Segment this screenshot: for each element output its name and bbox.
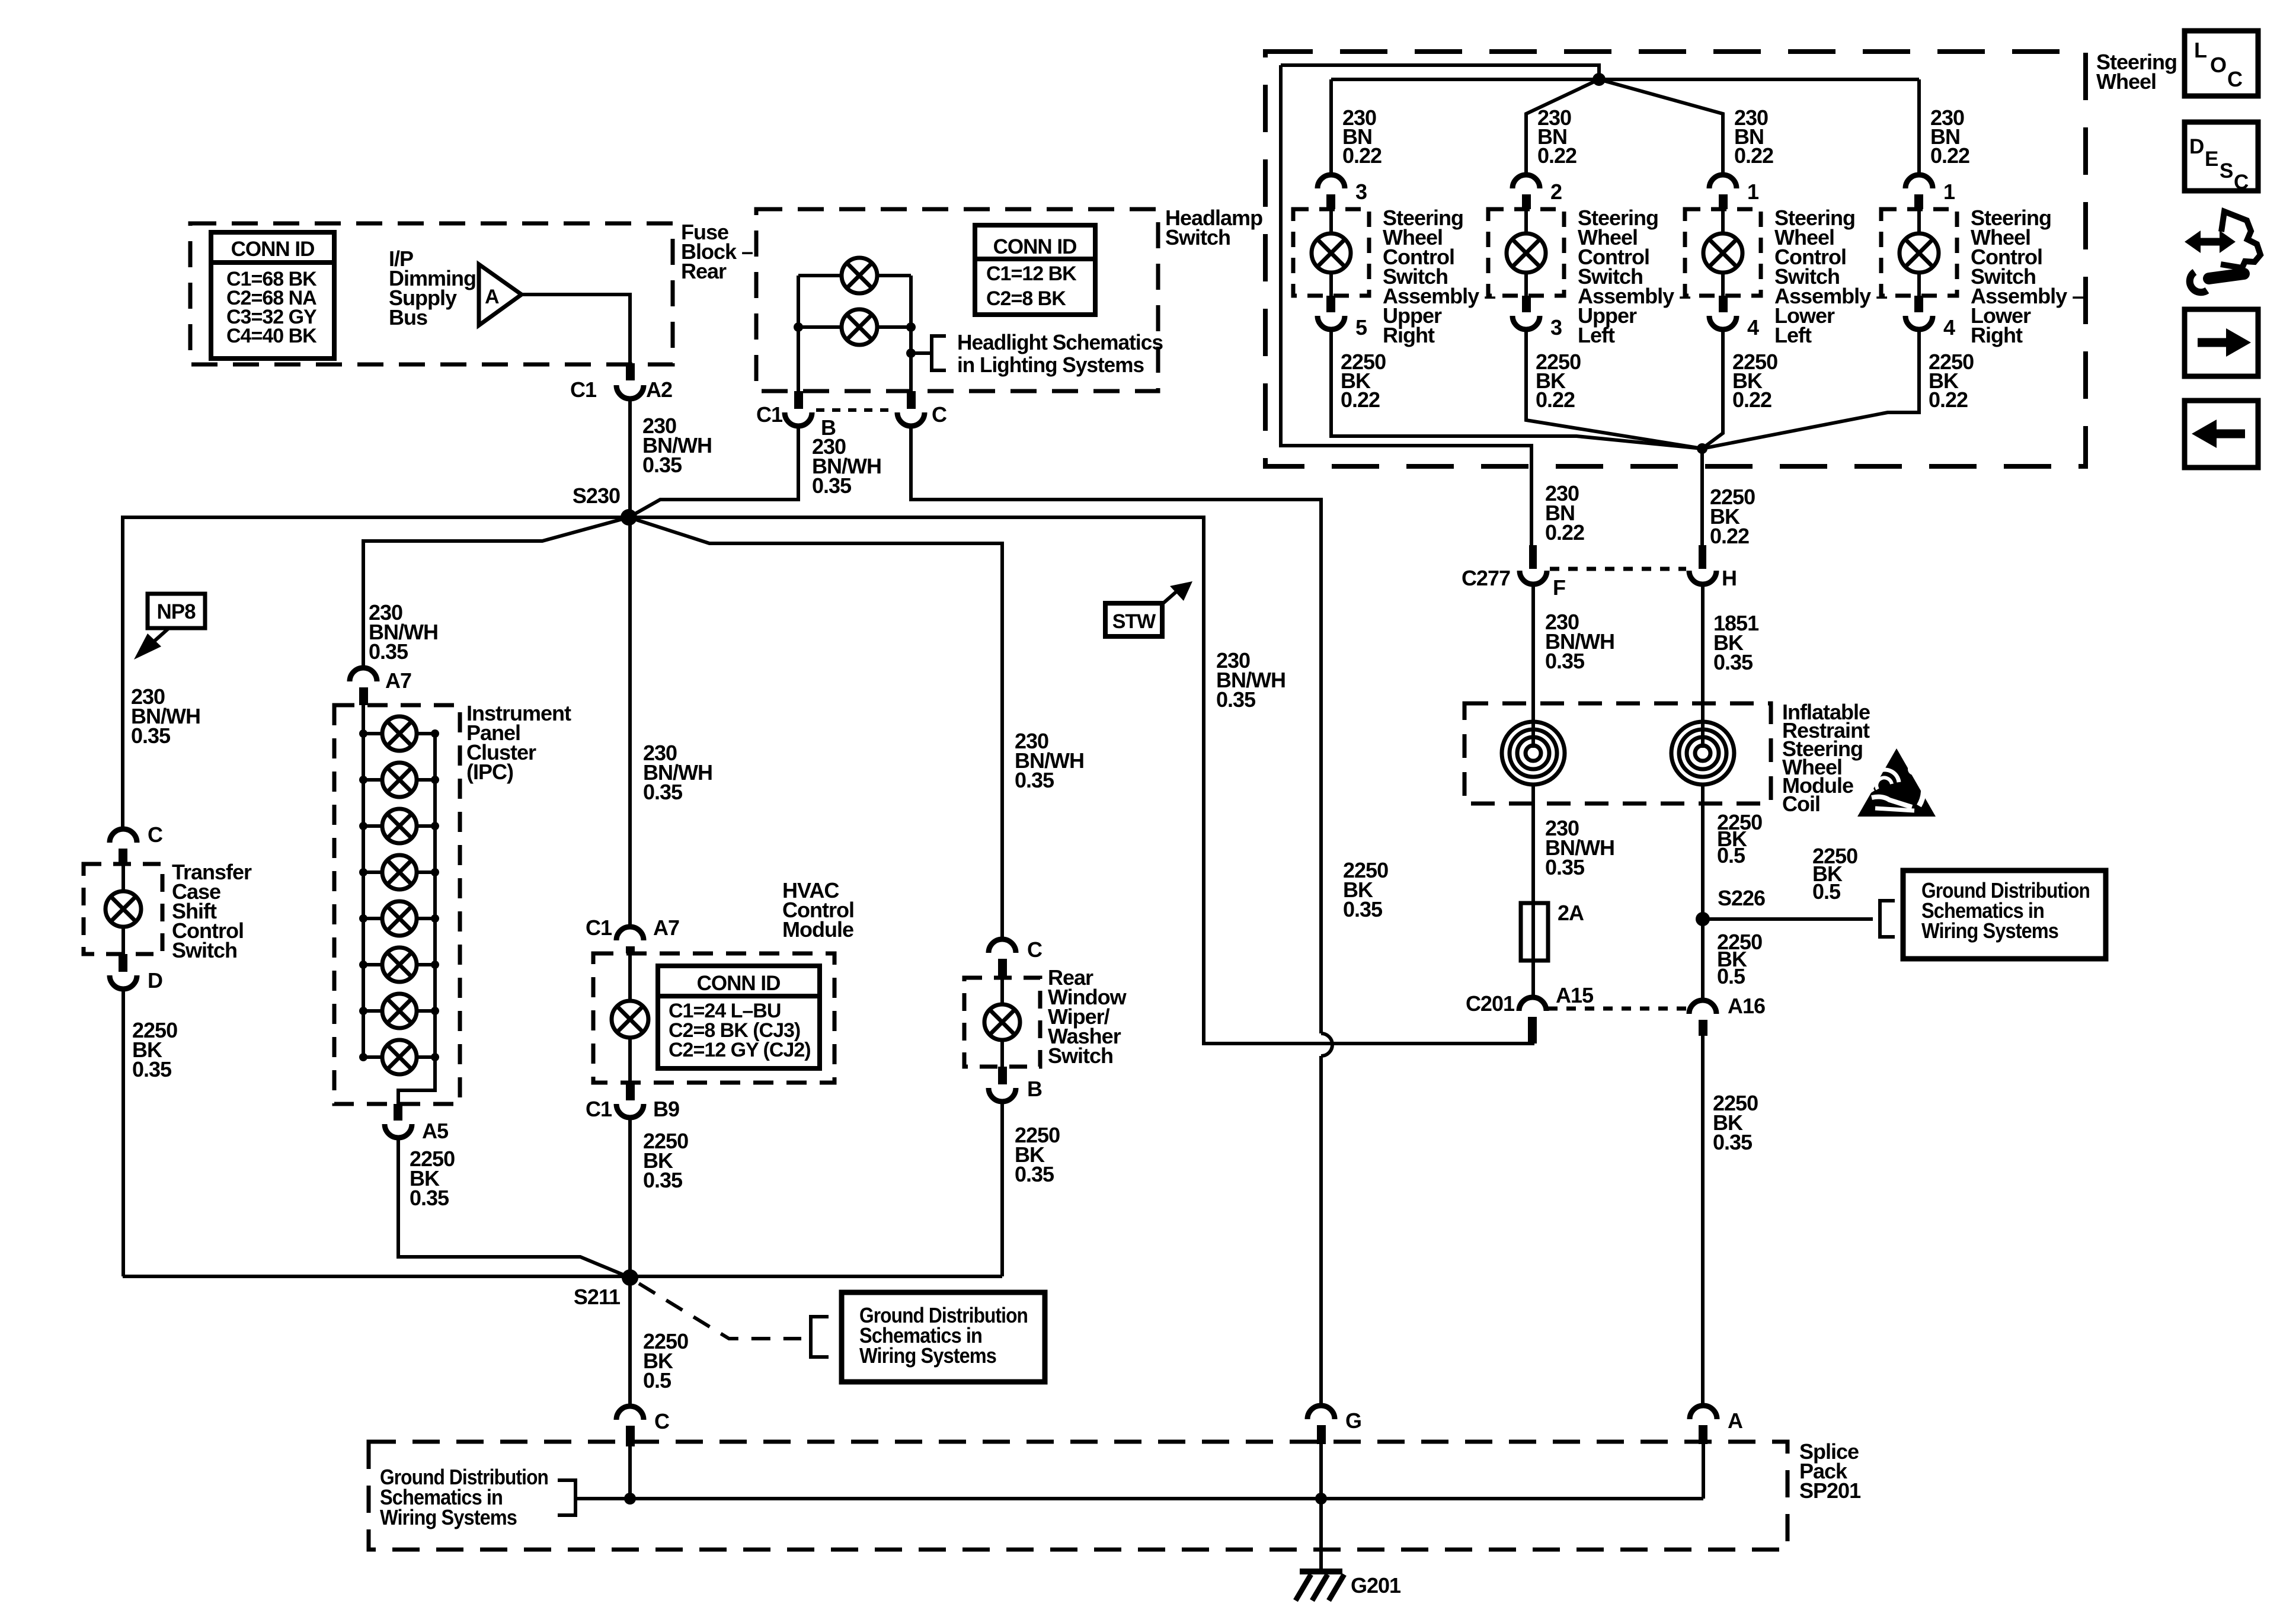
wire switch 2 ground <box>1526 330 1702 449</box>
svg-text:S211: S211 <box>574 1285 621 1309</box>
connector pin 3 (switch 2 bottom) <box>1512 296 1562 340</box>
connector C (splice pack) <box>616 1406 670 1446</box>
steering bus lower wire <box>1331 78 1919 81</box>
svg-text:B: B <box>1027 1077 1042 1101</box>
icon box arrow left <box>2185 401 2258 468</box>
svg-text:C4=40 BK: C4=40 BK <box>226 325 317 347</box>
svg-text:0.35: 0.35 <box>410 1186 449 1210</box>
svg-text:0.22: 0.22 <box>1732 388 1771 412</box>
label 2250 BK 0.22 (switch 2) <box>1536 350 1581 412</box>
label 2250 BK 0.35 (IPC gnd) <box>410 1147 455 1210</box>
label Steering Wheel Control Switch Assembly (switch 1) <box>1383 206 1495 347</box>
svg-text:Left: Left <box>1578 323 1615 347</box>
label 1851 BK 0.35 (H wire) <box>1713 611 1759 674</box>
svg-text:D: D <box>2189 135 2204 158</box>
svg-text:Left: Left <box>1774 323 1812 347</box>
label Steering Wheel Control Switch Assembly (switch 4) <box>1971 206 2083 347</box>
lamp IPC 4 <box>382 855 417 889</box>
connector C1/B (headlamp) <box>756 391 836 440</box>
wire D to bottom rail <box>121 988 125 1276</box>
svg-text:(IPC): (IPC) <box>466 760 513 784</box>
lamp (switch 4) <box>1900 209 1939 296</box>
icon box arrow right <box>2185 309 2258 376</box>
transfer case lamp leads <box>121 864 125 954</box>
svg-text:1: 1 <box>1943 180 1955 204</box>
wire S230 left and down <box>123 517 629 829</box>
svg-text:0.35: 0.35 <box>369 639 408 664</box>
wire G to rail and ground <box>1319 1444 1323 1571</box>
svg-text:A2: A2 <box>646 377 672 402</box>
wire C to rail <box>628 1446 632 1499</box>
svg-text:0.22: 0.22 <box>1537 143 1576 168</box>
callout box: Ground Distribution Schematics in Wiring Systems (right) <box>1903 870 2106 959</box>
svg-text:0.5: 0.5 <box>1717 964 1745 988</box>
connector C1/A2 pin <box>626 363 635 380</box>
svg-text:0.35: 0.35 <box>1015 768 1054 792</box>
svg-text:C1: C1 <box>570 377 597 402</box>
svg-text:C1: C1 <box>586 1097 612 1121</box>
label 2250 BK 0.35 (transfer case gnd) <box>132 1018 177 1081</box>
connector D (transfer case) <box>110 954 162 993</box>
svg-text:SP201: SP201 <box>1799 1478 1861 1503</box>
label Headlamp Switch <box>1165 206 1262 249</box>
label 230 BN 0.22 (switch 3) <box>1734 105 1773 168</box>
svg-text:0.35: 0.35 <box>1713 650 1753 674</box>
wire rear wiper B to rail <box>1000 1101 1004 1276</box>
svg-text:A: A <box>485 286 499 308</box>
headlamp lamp wiring <box>794 276 916 391</box>
wire S230 to HVAC A7 <box>628 517 632 927</box>
connector pin 1 (switch 4 top) <box>1905 175 1955 209</box>
svg-text:4: 4 <box>1943 315 1955 340</box>
wire S230 to C201 A15 (STW circuit) <box>629 517 1533 1044</box>
connector A (splice pack) <box>1690 1406 1743 1444</box>
lamp headlamp upper <box>842 258 877 293</box>
wire F to coil <box>1531 584 1535 748</box>
label 2250 BK 0.35 (headlamp gnd wire) <box>1343 858 1388 921</box>
wire bus to switch 4 <box>1917 79 1921 175</box>
label Transfer Case Shift Control Switch <box>172 860 252 962</box>
label Steering Wheel Control Switch Assembly (switch 3) <box>1774 206 1887 347</box>
svg-text:C: C <box>148 822 163 847</box>
svg-text:3: 3 <box>1355 180 1367 204</box>
CONN ID table (headlamp) <box>975 225 1095 315</box>
svg-text:C2=12 GY (CJ2): C2=12 GY (CJ2) <box>669 1039 811 1061</box>
svg-text:Rear: Rear <box>681 259 727 283</box>
label 230 BN/WH 0.35 (F below C277) <box>1545 610 1614 673</box>
svg-text:CONN ID: CONN ID <box>697 972 781 995</box>
wire H to coil <box>1701 584 1705 748</box>
svg-text:STW: STW <box>1112 610 1156 633</box>
component box: Headlamp Switch <box>756 209 1158 391</box>
connector C (headlamp) <box>897 391 947 427</box>
wire triangle to C1/A2 <box>522 295 630 364</box>
connector pin 5 (switch 1 bottom) <box>1318 296 1367 340</box>
component box: Splice Pack SP201 <box>369 1442 1787 1550</box>
component box: Inflatable Restraint Steering Wheel Module Coil <box>1464 703 1771 804</box>
lamp (rear wiper switch) <box>984 978 1020 1067</box>
svg-text:A15: A15 <box>1556 983 1594 1007</box>
svg-text:0.22: 0.22 <box>1929 388 1968 412</box>
svg-text:Right: Right <box>1971 323 2023 347</box>
wire A16 to splice A <box>1701 1036 1705 1405</box>
svg-text:D: D <box>148 968 162 993</box>
label 2250 BK 0.35 (HVAC gnd) <box>643 1129 688 1192</box>
lamp IPC 2 <box>382 763 417 797</box>
label Headlight Schematics in Lighting Systems <box>957 330 1163 377</box>
svg-text:0.22: 0.22 <box>1734 143 1773 168</box>
wire coil F to fuse to A15 <box>1531 785 1535 998</box>
ground rail wire to S211 <box>123 1275 1002 1278</box>
connector C (transfer case) <box>110 822 163 864</box>
label Instrument Panel Cluster (IPC) <box>466 701 571 784</box>
label 230 BN 0.22 (switch 4) <box>1930 105 1969 168</box>
lamp IPC 7 <box>382 994 417 1028</box>
splice S230 <box>573 484 637 526</box>
svg-text:Wiring Systems: Wiring Systems <box>859 1343 996 1368</box>
wire S230 to rear wiper C <box>629 517 1002 939</box>
svg-text:B9: B9 <box>653 1097 679 1121</box>
svg-text:S226: S226 <box>1718 886 1765 910</box>
connector pin 1 (switch 3 top) <box>1709 175 1759 209</box>
lamp (switch 3) <box>1703 209 1742 296</box>
component box: Rear Window Wiper/Washer Switch <box>964 978 1040 1067</box>
connector A16 <box>1689 994 1765 1036</box>
fuse 2A <box>1521 901 1584 961</box>
component box: Steering Wheel Control Switch 2 <box>1488 209 1564 296</box>
svg-text:C277: C277 <box>1462 566 1510 590</box>
svg-text:3: 3 <box>1550 315 1562 340</box>
label Steering Wheel <box>2096 50 2177 94</box>
svg-text:Module: Module <box>782 917 853 942</box>
steering bus left loop to F <box>1281 65 1531 548</box>
component box: HVAC Control Module <box>593 953 834 1083</box>
svg-text:0.35: 0.35 <box>1015 1162 1054 1186</box>
callout bracket (headlight schematics) <box>932 336 946 370</box>
svg-text:CONN ID: CONN ID <box>993 235 1077 258</box>
label 230 BN/WH 0.35 (fuse feed) <box>642 414 712 477</box>
svg-text:S: S <box>2220 159 2233 183</box>
label 230 BN/WH 0.35 (below coil) <box>1545 816 1614 879</box>
svg-text:C: C <box>1027 937 1043 962</box>
label 230 BN 0.22 (F wire) <box>1545 481 1584 545</box>
svg-text:0.35: 0.35 <box>642 453 682 477</box>
label 2250 BK 0.22 (switch 4) <box>1929 350 1974 412</box>
icon box LOC <box>2185 31 2258 96</box>
svg-text:2: 2 <box>1550 180 1562 204</box>
lamp (switch 1) <box>1312 209 1351 296</box>
label 2250 BK 0.22 (switch 3) <box>1732 350 1777 412</box>
svg-text:E: E <box>2205 148 2218 171</box>
lamp (HVAC) <box>612 953 648 1083</box>
callout bracket (S226 ground ref) <box>1880 901 1895 937</box>
svg-text:0.22: 0.22 <box>1341 388 1380 412</box>
component box: Steering Wheel Control Switch 3 <box>1685 209 1761 296</box>
svg-text:H: H <box>1722 566 1737 590</box>
wire to headlight schematics callout <box>911 351 932 355</box>
svg-text:F: F <box>1553 575 1565 600</box>
label Fuse Block - Rear <box>681 220 753 283</box>
component box: Steering Wheel Control Switch 4 <box>1881 209 1957 296</box>
lamp IPC 1 <box>382 716 417 751</box>
lamp IPC 6 <box>382 948 417 982</box>
junction G on rail <box>1315 1493 1327 1505</box>
connector C201/A15 <box>1466 983 1594 1044</box>
label 2250 BK 0.5 (below S226) <box>1717 930 1762 988</box>
svg-text:Coil: Coil <box>1782 792 1820 816</box>
label 230 BN/WH 0.35 (rear wiper feed) <box>1015 729 1084 792</box>
connector C1/B9 (HVAC) <box>586 1083 679 1121</box>
label I/P Dimming Supply Bus <box>389 247 476 329</box>
power triangle A <box>479 264 522 325</box>
splice pack bus rail <box>575 1497 1703 1500</box>
icon box DESC <box>2185 122 2258 194</box>
lamp headlamp lower <box>842 309 877 345</box>
label Rear Window Wiper/Washer Switch <box>1048 965 1127 1068</box>
svg-text:A5: A5 <box>422 1119 449 1143</box>
coil spiral (H side) <box>1671 722 1734 785</box>
svg-text:1: 1 <box>1747 180 1759 204</box>
svg-text:G: G <box>1345 1409 1361 1433</box>
svg-text:0.22: 0.22 <box>1545 520 1584 545</box>
svg-text:A7: A7 <box>653 916 679 940</box>
connector A5 (IPC) <box>385 1104 449 1143</box>
svg-text:0.22: 0.22 <box>1930 143 1969 168</box>
lamp (switch 2) <box>1507 209 1546 296</box>
svg-text:0.35: 0.35 <box>132 1057 172 1081</box>
svg-text:0.35: 0.35 <box>1713 1130 1753 1154</box>
connector A7 (IPC) <box>350 668 411 705</box>
svg-text:0.5: 0.5 <box>643 1368 671 1393</box>
svg-text:0.35: 0.35 <box>1343 897 1383 921</box>
component box: Steering Wheel <box>1265 52 2086 466</box>
wire C1/A2 to S230 <box>628 398 632 517</box>
connector pin 4 (switch 3 bottom) <box>1709 296 1759 340</box>
component box: Instrument Panel Cluster <box>334 705 460 1104</box>
connector C1/A7 (HVAC) <box>586 916 679 953</box>
connector line C277 dotted <box>1550 567 1686 571</box>
label HVAC Control Module <box>782 878 854 942</box>
label 230 BN/WH 0.35 (HVAC feed) <box>643 741 712 804</box>
IPC left bus wire <box>362 705 365 1057</box>
label 2250 BK 0.22 (switch 1) <box>1341 350 1386 412</box>
option box STW <box>1105 603 1162 636</box>
wire bus to switch 2 <box>1526 79 1599 175</box>
wire S226 to ground distribution callout <box>1703 917 1873 921</box>
svg-text:Wiring Systems: Wiring Systems <box>1921 918 2058 943</box>
STW arrow <box>1160 581 1192 606</box>
svg-text:Bus: Bus <box>389 305 427 329</box>
airbag warning triangle <box>1857 748 1936 817</box>
connector pin 2 (switch 2 top) <box>1512 175 1562 209</box>
junction switch grounds <box>1697 443 1707 454</box>
svg-text:A7: A7 <box>385 668 411 693</box>
svg-text:C: C <box>654 1409 670 1433</box>
svg-text:Switch: Switch <box>1165 225 1230 249</box>
connector G (splice pack) <box>1307 1406 1361 1444</box>
wire A to rail <box>1702 1444 1705 1499</box>
wire bus to switch 3 <box>1599 79 1723 175</box>
splice S226 <box>1696 886 1765 926</box>
label 230 BN/WH 0.35 (headlamp feed) <box>812 434 881 498</box>
label 2250 BK 0.5 (S211 gnd) <box>643 1329 688 1393</box>
ground G201 <box>1296 1571 1401 1601</box>
option box NP8 <box>148 594 205 628</box>
svg-text:C201: C201 <box>1466 991 1515 1016</box>
svg-text:L: L <box>2194 38 2207 62</box>
NP8 arrow <box>134 628 169 660</box>
wire S211 to connector C <box>628 1278 632 1406</box>
svg-text:in Lighting Systems: in Lighting Systems <box>957 353 1144 377</box>
svg-text:0.22: 0.22 <box>1536 388 1575 412</box>
svg-text:0.35: 0.35 <box>1216 687 1256 712</box>
svg-text:Wheel: Wheel <box>2096 69 2156 94</box>
connector B (rear wiper) <box>989 1067 1042 1102</box>
svg-text:0.35: 0.35 <box>1545 855 1585 879</box>
svg-text:0.35: 0.35 <box>643 1168 683 1192</box>
junction on steering bus <box>1593 73 1606 86</box>
svg-text:C: C <box>2234 171 2249 194</box>
svg-text:Switch: Switch <box>1048 1044 1113 1068</box>
svg-text:2A: 2A <box>1558 901 1584 925</box>
dashed reference line from S211 <box>639 1283 801 1339</box>
label 2250 BK 0.35 (A wire) <box>1713 1091 1758 1154</box>
wire headlamp C ground (down to splice G) <box>911 426 1332 1405</box>
svg-text:C: C <box>2227 67 2243 91</box>
svg-text:O: O <box>2210 53 2226 77</box>
component box: Steering Wheel Control Switch 1 <box>1293 209 1369 296</box>
svg-text:Right: Right <box>1383 323 1435 347</box>
callout bracket (S211 ground ref) <box>811 1317 829 1357</box>
callout box: Ground Distribution Schematics in Wiring Systems (center) <box>842 1292 1045 1382</box>
svg-text:0.5: 0.5 <box>1717 843 1745 868</box>
label 230 BN/WH 0.35 (IPC feed) <box>369 600 438 664</box>
splice S211 <box>574 1269 638 1309</box>
svg-text:0.5: 0.5 <box>1812 879 1841 904</box>
svg-text:G201: G201 <box>1351 1573 1401 1598</box>
label Splice Pack SP201 <box>1799 1439 1861 1503</box>
label 230 BN/WH 0.35 (NP8 wire) <box>131 684 200 748</box>
connector pin 3 (switch 1 top) <box>1318 175 1367 209</box>
IPC lamp row leads and junctions <box>359 729 439 1061</box>
svg-text:A: A <box>1728 1409 1743 1433</box>
label 230 BN/WH 0.35 (STW wire) <box>1216 648 1285 712</box>
lamp (transfer case switch) <box>105 891 141 927</box>
wire switch 1 ground <box>1331 330 1702 449</box>
wire bus to switch 1 <box>1329 79 1333 175</box>
connector pin 4 (switch 4 bottom) <box>1905 296 1955 340</box>
callout bracket (splice pack) <box>558 1480 575 1515</box>
lamp IPC 3 <box>382 809 417 843</box>
label Inflatable Restraint Steering Wheel Module Coil <box>1782 700 1870 816</box>
component box: Fuse Block - Rear <box>190 223 673 364</box>
connector line C201 dotted <box>1548 1007 1686 1011</box>
svg-text:5: 5 <box>1355 315 1367 340</box>
label 2250 BK 0.22 (H wire) <box>1710 485 1755 548</box>
svg-text:0.35: 0.35 <box>643 780 683 804</box>
connector C277/F <box>1462 545 1565 600</box>
icon steering column service <box>2185 212 2260 292</box>
connector C1/A2 <box>570 377 672 402</box>
label 2250 BK 0.5 (below coil H) <box>1717 810 1762 868</box>
svg-text:0.22: 0.22 <box>1710 524 1749 548</box>
lamp IPC 8 <box>382 1040 417 1074</box>
svg-text:0.35: 0.35 <box>1545 649 1585 673</box>
label 230 BN 0.22 (switch 2) <box>1537 105 1576 168</box>
CONN ID table (HVAC) <box>658 966 820 1068</box>
IPC right bus wire <box>398 734 435 1104</box>
svg-text:C1=12 BK: C1=12 BK <box>986 263 1077 285</box>
svg-text:0.35: 0.35 <box>812 473 852 498</box>
wire switch 3 ground <box>1702 330 1723 449</box>
svg-text:Wiring Systems: Wiring Systems <box>380 1505 517 1529</box>
connector line C1 dotted <box>816 408 894 412</box>
svg-text:C2=8 BK: C2=8 BK <box>986 287 1066 310</box>
label Ground Distribution Schematics in Wiring Systems (splice pack) <box>380 1465 548 1529</box>
junction C on rail <box>624 1493 636 1505</box>
wire coil H down to A16 <box>1701 785 1705 1001</box>
svg-text:0.22: 0.22 <box>1342 143 1382 168</box>
svg-text:NP8: NP8 <box>156 600 196 623</box>
label 230 BN 0.22 (switch 1) <box>1342 105 1382 168</box>
svg-text:Switch: Switch <box>172 938 237 962</box>
wire B9 to S211 <box>628 1117 632 1276</box>
label 2250 BK 0.5 (S226 branch) <box>1812 844 1857 904</box>
steering bus upper wire <box>1281 65 1599 79</box>
label 2250 BK 0.35 (rear wiper gnd) <box>1015 1123 1060 1186</box>
connector C (rear wiper) <box>989 937 1043 978</box>
svg-text:Headlight Schematics: Headlight Schematics <box>957 330 1163 354</box>
svg-text:4: 4 <box>1747 315 1759 340</box>
svg-text:A16: A16 <box>1728 994 1765 1018</box>
svg-text:C1: C1 <box>586 916 612 940</box>
svg-text:CONN ID: CONN ID <box>231 238 315 261</box>
CONN ID table (fuse block) <box>211 232 334 359</box>
svg-text:C1: C1 <box>756 402 783 427</box>
svg-text:S230: S230 <box>573 484 620 508</box>
connector H <box>1689 545 1737 590</box>
wire headlamp B to S230 <box>629 426 798 517</box>
wire A5 to S211 <box>398 1137 630 1278</box>
label Steering Wheel Control Switch Assembly (switch 2) <box>1578 206 1690 347</box>
lamp IPC 5 <box>382 901 417 936</box>
svg-text:0.35: 0.35 <box>131 724 171 748</box>
component box: Transfer Case Shift Control Switch <box>84 864 162 954</box>
svg-text:C: C <box>932 402 947 427</box>
wire switch 4 ground <box>1702 330 1919 449</box>
wire S230 to IPC A7 <box>363 517 629 668</box>
coil spiral (F side) <box>1502 722 1565 785</box>
wire junction to H <box>1700 449 1704 548</box>
